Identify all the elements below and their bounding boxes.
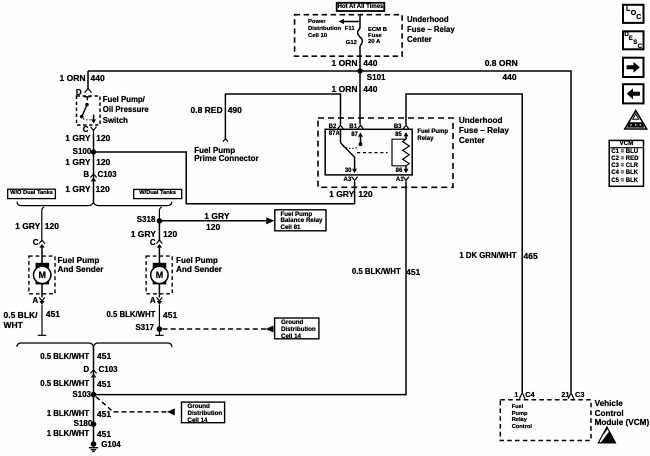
label wire 120 (below S100)	[96, 158, 110, 167]
label pin A left pump	[32, 297, 38, 305]
label wire 120 (above S100)	[96, 134, 110, 143]
label connector pin D	[83, 366, 89, 374]
label wire 0.5 BLK/WHT (left branch)	[4, 310, 38, 331]
relay contact 87A	[340, 129, 342, 142]
label cell Ground Distribution 14 (lower)	[188, 404, 223, 425]
label VCM pin 21	[561, 391, 569, 398]
switch lever	[80, 105, 87, 119]
label wire 451 (above S103)	[97, 380, 111, 389]
relay coil pin 86 down arrow	[404, 166, 409, 173]
wire C to right pump motor	[158, 248, 160, 264]
label wire 451 (relay A1)	[406, 268, 420, 277]
wire right branch through S317 to merge brace	[155, 305, 163, 336]
label pin C left pump	[33, 239, 39, 247]
relay pin B1 connector	[358, 125, 364, 129]
label Hot At All Times	[338, 4, 384, 10]
switch pivot dot	[85, 103, 88, 106]
label wire 451 (right branch)	[163, 311, 177, 320]
node S318	[157, 218, 163, 224]
label wire 451 (above S180)	[97, 410, 111, 419]
relay U1 fuel pump relay body	[325, 129, 412, 175]
box ground distribution cell 14 (upper)	[275, 318, 319, 339]
connector C left pump	[39, 240, 45, 247]
label wire 1 GRY (above brace)	[65, 185, 90, 194]
connector C right pump	[157, 240, 163, 247]
label VCM table C5 = BLK	[611, 178, 638, 184]
label VCM table C3 = CLR	[611, 163, 638, 169]
label VCM table C4 = BLK	[611, 170, 638, 176]
box Hot At All Times	[337, 3, 385, 11]
label Fuel Pump And Sender (left)	[58, 256, 104, 275]
box fuel pump / oil pressure switch (dashed)	[77, 96, 101, 125]
label relay terminal 87	[351, 132, 358, 138]
label wire 120 (right branch)	[163, 230, 177, 239]
brace merge from dual tank branches (bottom)	[17, 343, 172, 347]
wire 0.5 BLK/WHT 451 relay A1 down to S103 run	[94, 182, 407, 395]
icon LOC letter C	[636, 14, 641, 21]
label relay pin B1	[349, 124, 357, 130]
label wire 120 (relay A3)	[358, 190, 372, 199]
icon DESC letter S	[633, 40, 637, 46]
label wire 1 GRY (left branch)	[15, 222, 40, 231]
label relay pin B3	[394, 124, 402, 130]
label splice S103	[72, 391, 91, 399]
arrow S318 to fuel pump balance relay	[159, 217, 274, 224]
label cell Fuel Pump Balance Relay	[281, 212, 323, 233]
label VCM table C2 = RED	[611, 156, 638, 162]
label relay pin B2	[329, 124, 337, 130]
box W/O Dual Tanks	[8, 189, 56, 198]
label wire 440 (left bus)	[91, 74, 105, 83]
connector A left pump	[39, 297, 45, 304]
label splice S100	[73, 148, 92, 156]
label relay pin A1	[396, 177, 404, 183]
wire right pump to A connector	[158, 284, 160, 297]
connector VCM pin 1 C4	[519, 393, 525, 399]
connector C of oil pressure switch	[91, 127, 97, 134]
label splice S318	[137, 216, 156, 224]
switch fixed contact T	[84, 97, 91, 100]
relay coil pin 85 up arrow	[404, 132, 409, 139]
table VCM connector colors	[609, 140, 643, 186]
label wire 440 (below S101)	[363, 85, 377, 94]
icon LOC letter L	[626, 6, 630, 13]
label connector pin B	[83, 171, 89, 179]
label motor M (right)	[156, 271, 164, 280]
icon caution triangle	[625, 111, 647, 129]
label wire 120 (above brace)	[96, 185, 110, 194]
label wire 1 BLK/WHT (above S180)	[47, 410, 89, 418]
label VCM pin C4	[525, 391, 534, 398]
label ECM B Fuse 20 A	[368, 28, 387, 46]
label wire 451 (above G104)	[97, 430, 111, 439]
label pin C right pump	[150, 239, 156, 247]
relay dashed link armature to coil	[357, 152, 388, 154]
wire right branch hook down from brace	[159, 207, 161, 221]
motor M2 fuel pump and sender (right)	[146, 256, 172, 294]
label wire 1 GRY (balance arrow)	[204, 212, 229, 221]
wire main ORN bus 440 from fuse splice to VCM C3	[88, 71, 571, 392]
switch dotted throw arc	[83, 119, 93, 120]
wire left pump to A connector	[41, 284, 43, 297]
label relay terminal 86	[396, 168, 403, 174]
label wire 465	[524, 252, 538, 261]
label wire 120 (left branch)	[45, 222, 59, 231]
connector C103 pin D (chevron + arrow)	[90, 370, 96, 377]
wire 1 DK GRN/WHT 465 relay B3 to VCM C4	[406, 94, 522, 392]
icon LOC box	[623, 5, 644, 23]
box underhood fuse block (dashed)	[295, 15, 403, 57]
box W/Dual Tanks	[134, 189, 182, 198]
label wire 0.5 BLK/WHT (above S103)	[40, 380, 89, 388]
label VCM table header	[620, 141, 634, 147]
connector D of oil pressure switch	[85, 88, 92, 92]
relay pin A1 connector	[403, 177, 409, 182]
label Fuel Pump Prime Connector	[194, 147, 258, 165]
node S101	[357, 68, 362, 73]
label splice S101	[367, 74, 386, 82]
label option W/Dual Tanks	[139, 191, 176, 197]
label wire 1 GRY (above S100)	[65, 134, 90, 143]
label switch pin D	[76, 89, 82, 97]
label relay pin A3	[344, 177, 352, 183]
connector C103 pin B (chevron + arrow)	[90, 174, 96, 181]
icon forward arrow box	[623, 58, 644, 77]
dashed leader S103 to ground distribution	[96, 397, 175, 416]
label wire 1 ORN (above S101)	[332, 59, 358, 68]
label wire 1 GRY (relay A3)	[329, 190, 354, 199]
label Fuel Pump Relay	[417, 129, 448, 143]
connector A right pump	[157, 297, 163, 304]
label VCM pin C3	[575, 391, 584, 398]
icon DESC letter C	[638, 44, 642, 50]
relay pin B3 connector	[403, 125, 409, 129]
icon DESC letter E	[629, 36, 633, 42]
box fuel pump balance relay cell 81	[275, 210, 326, 231]
wire drop from bus to oil pressure switch pin D	[87, 71, 89, 89]
label relay terminal 85	[395, 132, 402, 138]
label wire 440 (above S101)	[363, 59, 377, 68]
label wire 451 (left branch)	[46, 310, 60, 319]
label VCM pin 1	[514, 391, 518, 398]
label ground G104	[101, 441, 121, 449]
label fuse F11	[345, 27, 355, 33]
fuse F11 ECM B symbol	[358, 29, 363, 46]
label splice S317	[135, 324, 154, 332]
label wire 0.8 RED	[190, 106, 222, 115]
wire S100 branch to relay pin A3 (via jog)	[94, 152, 355, 204]
label wire 0.5 BLK/WHT (relay A1)	[352, 268, 401, 276]
label wire 1 GRY (right branch)	[131, 230, 156, 239]
relay pin B2 connector	[338, 125, 344, 129]
motor M1 fuel pump and sender (left)	[29, 256, 55, 294]
wire 451 ground run brace to G104	[93, 347, 95, 442]
symbol ESD notice triangle	[598, 427, 616, 444]
label wire 0.8 ORN	[485, 59, 518, 68]
label connector C103 (lower)	[99, 366, 118, 374]
wire S101 to relay pin B1	[359, 71, 361, 125]
label Underhood Fuse-Relay Center (relay)	[459, 116, 509, 146]
label wire 0.5 BLK/WHT (right branch)	[106, 311, 155, 319]
relay armature from 87A to pivot 30	[341, 143, 355, 158]
label pin A right pump	[150, 297, 156, 305]
label motor M (left)	[39, 271, 47, 280]
label wire 1 GRY (below S100)	[65, 158, 90, 167]
wire 1 GRY 120 switch C down through S100, C103 to brace	[93, 134, 95, 203]
wire 0.8 RED 490 prime connector feed from relay B2	[225, 94, 340, 139]
node S100	[91, 149, 96, 154]
label relay terminal 87A	[329, 131, 340, 137]
label wire 451 (below brace)	[97, 352, 111, 361]
wire C to left pump motor	[41, 248, 43, 264]
node S103	[91, 392, 97, 398]
label connector C103 (upper)	[98, 171, 117, 179]
brace split to dual tank options (top)	[17, 202, 172, 206]
label option W/O Dual Tanks	[10, 191, 53, 197]
wire S318 down through C to right pump	[158, 221, 160, 241]
label Underhood Fuse-Relay Center (top)	[407, 15, 455, 45]
wire 0.5 BLK/WHT 451 left branch to merge brace	[38, 305, 46, 336]
relay pin A3 connector	[352, 177, 358, 182]
label splice S180	[74, 420, 93, 428]
relay contact 87 with up arrow and dot	[358, 132, 363, 146]
connector VCM pin 21 C3	[568, 393, 574, 399]
node S180	[91, 421, 97, 427]
wire fuse to bus S101	[359, 15, 361, 71]
label wire 490	[228, 106, 242, 115]
label wire 1 ORN (below S101)	[332, 85, 358, 94]
label Fuel Pump And Sender (right)	[176, 256, 222, 275]
box ground distribution cell 14 (lower)	[182, 402, 225, 423]
label wire 1 BLK/WHT (above G104)	[47, 430, 89, 438]
label wire 120 (balance arrow)	[206, 223, 220, 232]
connector pin fuel pump prime (lambda)	[223, 139, 228, 142]
icon DESC letter D	[624, 32, 628, 38]
node S317	[157, 326, 163, 332]
label switch pin C	[83, 126, 89, 134]
label Vehicle Control Module (VCM)	[595, 399, 650, 428]
wire left branch hook down from brace	[42, 207, 44, 240]
label Fuel Pump Relay Control	[512, 404, 532, 430]
icon DESC box	[623, 31, 644, 49]
box vehicle control module (dashed)	[500, 400, 591, 441]
switch output arrow down	[91, 115, 96, 124]
box underhood fuse-relay center (dashed)	[318, 118, 453, 187]
wire bus arrow to power distribution	[339, 19, 360, 24]
icon back arrow box	[623, 84, 644, 103]
relay pin 30 with down arrow	[352, 157, 357, 173]
label wire 1 ORN (left bus)	[60, 74, 86, 83]
icon LOC letter O	[631, 10, 636, 17]
label Fuel Pump/ Oil Pressure Switch	[103, 95, 149, 126]
label wire 0.5 BLK/WHT (below brace)	[40, 353, 89, 361]
label VCM table C1 = BLU	[611, 149, 638, 155]
label fuse G12	[346, 41, 357, 47]
label wire 1 DK GRN/WHT	[459, 252, 516, 260]
ground G104 symbol	[89, 441, 98, 451]
relay coil L1 (box with zigzag)	[392, 139, 409, 166]
label Power Distribution Cell 10	[308, 19, 341, 40]
label relay terminal 30	[345, 168, 352, 174]
dashed leader S317 to ground distribution	[163, 326, 274, 333]
relay dotted throw arc	[343, 146, 358, 148]
label wire 440 (0.8 ORN)	[502, 73, 516, 82]
label cell Ground Distribution 14 (upper)	[281, 320, 316, 341]
